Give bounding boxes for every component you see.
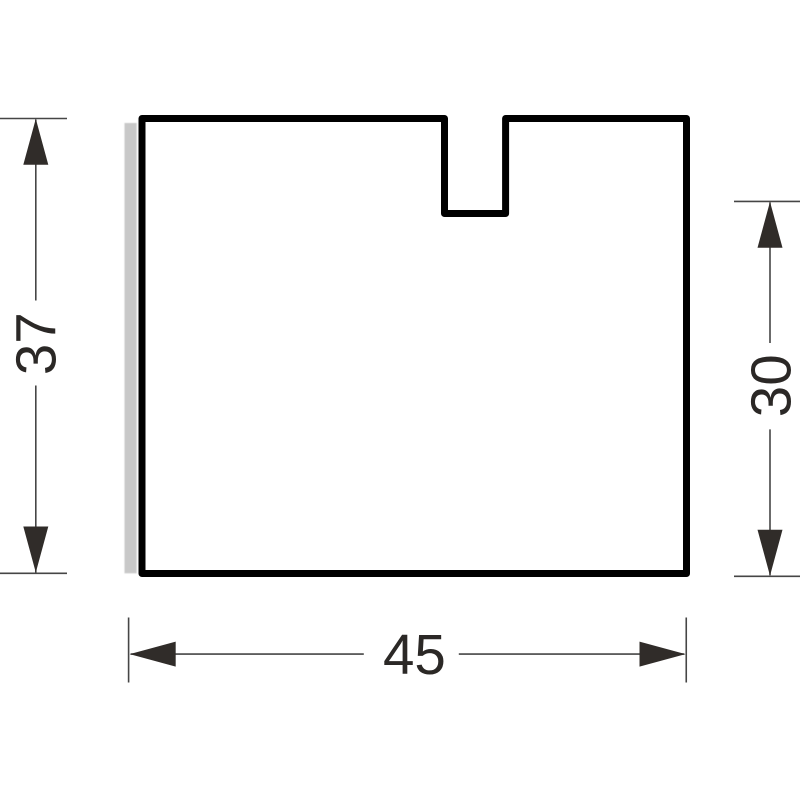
arrowhead 37 top (up) [23, 119, 48, 165]
extension tick bottom-right (45 dim, right) [685, 618, 687, 683]
dimension line 45 (horizontal, left segment) [131, 653, 364, 655]
svg-text:45: 45 [383, 623, 446, 686]
label 45 [383, 623, 446, 686]
arrowhead 45 left [130, 642, 176, 667]
arrowhead 45 right [640, 642, 686, 667]
arrowhead 30 bottom (down) [758, 530, 783, 576]
extension line bottom-right (30 dim, bottom) [734, 575, 800, 577]
dimension line 30 (vertical, upper segment) [769, 202, 771, 343]
extension line top-left (37 dim, top) [0, 118, 67, 120]
svg-text:37: 37 [4, 312, 67, 375]
extension line top-right (30 dim, top) [734, 200, 800, 202]
dimension line 37 (vertical, upper segment) [35, 120, 37, 301]
panel outline with top groove notch [142, 119, 687, 574]
dimension line 30 (vertical, lower segment) [769, 429, 771, 575]
label 30 [740, 354, 800, 417]
dimension line 37 (vertical, lower segment) [35, 386, 37, 573]
svg-text:30: 30 [740, 354, 800, 417]
dimension line 45 (horizontal, right segment) [459, 653, 685, 655]
extension tick bottom-left (45 dim, left) [128, 618, 130, 683]
arrowhead 37 bottom (down) [23, 527, 48, 573]
shadow strip left of panel [125, 123, 137, 573]
extension line bottom-left (37 dim, bottom) [0, 572, 67, 574]
arrowhead 30 top (up) [758, 202, 783, 248]
label 37 [4, 312, 67, 375]
